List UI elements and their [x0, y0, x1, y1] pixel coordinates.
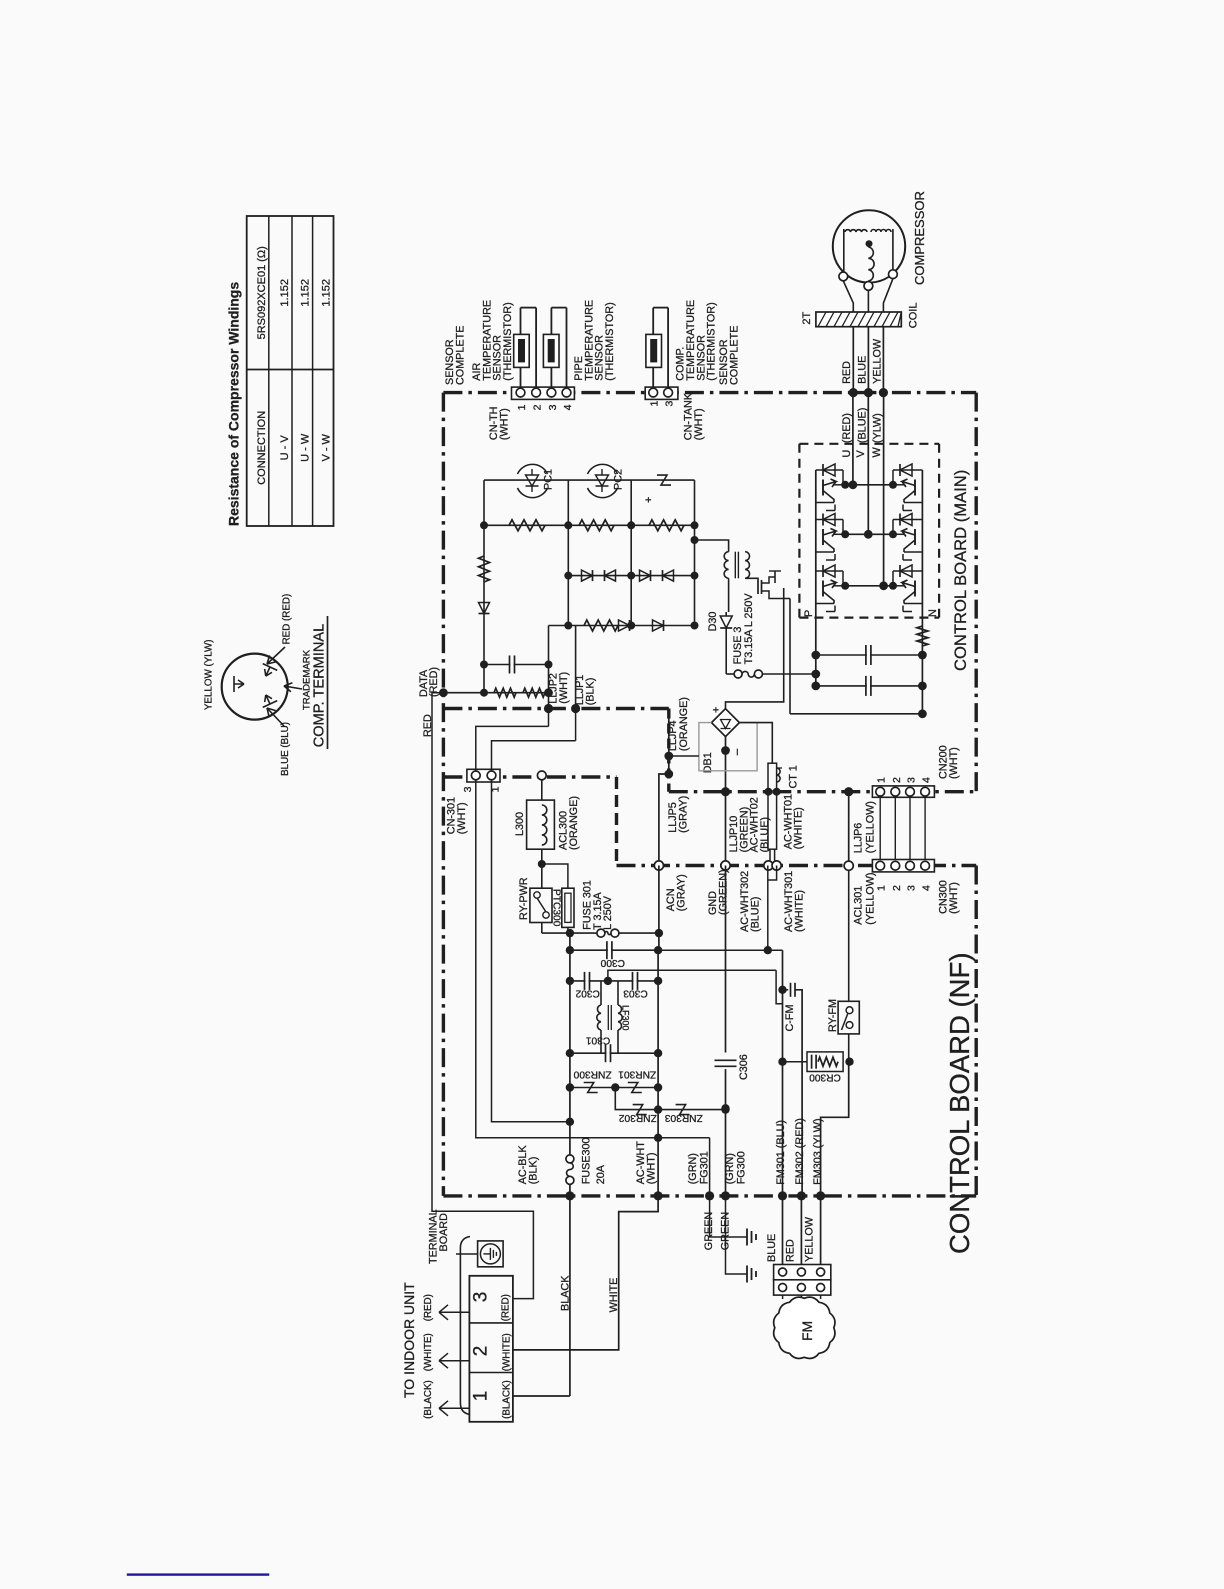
svg-text:(BLK): (BLK) — [585, 678, 597, 706]
svg-text:+: + — [643, 497, 655, 503]
svg-text:CT 1: CT 1 — [787, 765, 799, 788]
svg-text:(WHT): (WHT) — [558, 672, 570, 704]
svg-text:4: 4 — [921, 777, 933, 783]
svg-text:U - V: U - V — [279, 435, 291, 461]
svg-text:C300: C300 — [600, 957, 625, 968]
svg-text:U: U — [841, 450, 853, 458]
svg-text:3: 3 — [664, 401, 676, 407]
svg-text:FG301: FG301 — [699, 1151, 711, 1184]
svg-text:WHITE: WHITE — [608, 1278, 620, 1313]
svg-text:1: 1 — [516, 404, 528, 410]
svg-text:P: P — [803, 610, 815, 617]
svg-text:(WHT): (WHT) — [499, 408, 511, 440]
svg-text:(WHITE): (WHITE) — [502, 1333, 513, 1371]
svg-text:1.152: 1.152 — [300, 279, 312, 307]
svg-text:(GREEN): (GREEN) — [717, 869, 729, 915]
svg-text:N: N — [927, 609, 939, 617]
svg-text:(THERMISTOR): (THERMISTOR) — [502, 302, 514, 380]
svg-text:FM301 (BLU): FM301 (BLU) — [775, 1120, 787, 1185]
svg-text:BOARD: BOARD — [438, 1213, 450, 1252]
svg-text:ZNR301: ZNR301 — [618, 1069, 656, 1080]
svg-text:BLUE: BLUE — [856, 356, 868, 384]
svg-text:COMP. TERMINAL: COMP. TERMINAL — [312, 624, 328, 748]
svg-text:W: W — [871, 447, 883, 458]
svg-text:YELLOW: YELLOW — [872, 338, 884, 384]
svg-text:FUSE300: FUSE300 — [581, 1137, 593, 1184]
svg-text:(BLACK): (BLACK) — [423, 1380, 434, 1419]
svg-text:2: 2 — [891, 885, 903, 891]
svg-text:CONTROL BOARD (MAIN): CONTROL BOARD (MAIN) — [951, 470, 970, 671]
svg-text:T3.15A L 250V: T3.15A L 250V — [743, 593, 755, 665]
svg-text:3: 3 — [906, 885, 918, 891]
svg-text:2T: 2T — [801, 311, 813, 324]
svg-text:(THERMISTOR): (THERMISTOR) — [604, 302, 616, 380]
svg-text:ZNR302: ZNR302 — [619, 1112, 657, 1123]
svg-text:1.152: 1.152 — [320, 279, 332, 307]
svg-text:(GRAY): (GRAY) — [678, 796, 690, 833]
svg-text:(GRN): (GRN) — [687, 1153, 699, 1184]
svg-text:GREEN: GREEN — [703, 1212, 715, 1250]
svg-text:PTC300: PTC300 — [551, 889, 562, 927]
svg-text:FM302 (RED): FM302 (RED) — [794, 1118, 806, 1185]
svg-text:(BLUE): (BLUE) — [856, 408, 868, 443]
svg-text:(BLACK): (BLACK) — [502, 1380, 513, 1419]
svg-text:(ORANGE): (ORANGE) — [678, 697, 690, 751]
svg-text:(WHT): (WHT) — [456, 802, 468, 834]
svg-text:(BLUE): (BLUE) — [749, 897, 761, 932]
svg-text:COIL: COIL — [908, 303, 920, 329]
svg-text:RED: RED — [785, 1239, 797, 1262]
svg-text:(WHITE): (WHITE) — [793, 890, 805, 932]
svg-text:3: 3 — [547, 404, 559, 410]
svg-text:C301: C301 — [585, 1034, 610, 1045]
svg-text:1.152: 1.152 — [279, 279, 291, 307]
svg-text:4: 4 — [921, 885, 933, 891]
svg-text:RED: RED — [841, 361, 853, 384]
svg-text:C302: C302 — [575, 987, 600, 998]
svg-text:2: 2 — [471, 1346, 492, 1357]
svg-text:C-FM: C-FM — [784, 1005, 796, 1032]
svg-text:2: 2 — [532, 404, 544, 410]
svg-text:CONTROL BOARD (NF): CONTROL BOARD (NF) — [944, 953, 975, 1254]
svg-text:Resistance of Compressor Windi: Resistance of Compressor Windings — [226, 282, 242, 526]
svg-text:C303: C303 — [623, 987, 648, 998]
svg-text:CR300: CR300 — [809, 1071, 841, 1082]
svg-text:(WHT): (WHT) — [693, 408, 705, 440]
svg-text:BLACK: BLACK — [560, 1275, 572, 1311]
svg-text:1: 1 — [649, 401, 661, 407]
svg-text:(WHITE): (WHITE) — [793, 807, 805, 849]
svg-text:C306: C306 — [738, 1054, 750, 1080]
svg-text:L 250V: L 250V — [602, 895, 614, 930]
svg-text:1: 1 — [471, 1391, 492, 1402]
svg-text:(WHT): (WHT) — [948, 882, 960, 914]
svg-text:20A: 20A — [595, 1164, 607, 1184]
svg-text:5RS092XCE01 (Ω): 5RS092XCE01 (Ω) — [256, 246, 268, 339]
svg-text:(YLW): (YLW) — [872, 413, 884, 443]
svg-text:(RED): (RED) — [841, 413, 853, 443]
svg-text:(THERMISTOR): (THERMISTOR) — [706, 302, 718, 380]
svg-text:PC1: PC1 — [543, 469, 555, 490]
svg-text:COMPLETE: COMPLETE — [728, 326, 740, 385]
svg-text:LLJP6: LLJP6 — [853, 823, 865, 854]
svg-text:(ORANGE): (ORANGE) — [568, 796, 580, 850]
svg-text:RY-PWR: RY-PWR — [518, 877, 530, 920]
svg-text:3: 3 — [471, 1292, 492, 1303]
svg-text:4: 4 — [562, 404, 574, 410]
svg-text:RED (RED): RED (RED) — [282, 594, 293, 645]
svg-text:(RED): (RED) — [423, 1294, 434, 1321]
svg-text:(RED): (RED) — [501, 1294, 512, 1321]
svg-text:+: + — [711, 707, 723, 713]
svg-text:GREEN: GREEN — [720, 1212, 732, 1250]
svg-text:BLUE (BLU): BLUE (BLU) — [280, 722, 291, 776]
svg-text:V: V — [855, 450, 867, 458]
svg-text:RY-FM: RY-FM — [827, 999, 839, 1032]
svg-text:COMPLETE: COMPLETE — [454, 326, 466, 385]
svg-text:(BLK): (BLK) — [527, 1157, 539, 1185]
svg-text:V - W: V - W — [320, 433, 332, 461]
svg-text:TO INDOOR UNIT: TO INDOOR UNIT — [401, 1282, 417, 1398]
svg-text:(YELLOW): (YELLOW) — [865, 801, 877, 853]
svg-text:1: 1 — [876, 885, 888, 891]
svg-text:(BLUE): (BLUE) — [759, 817, 771, 852]
svg-text:(YELLOW): (YELLOW) — [865, 872, 877, 924]
svg-text:(GRAY): (GRAY) — [675, 874, 687, 911]
svg-text:CONNECTION: CONNECTION — [256, 411, 268, 485]
svg-text:FM303 (YLW): FM303 (YLW) — [812, 1118, 824, 1184]
svg-text:BLUE: BLUE — [766, 1234, 778, 1262]
svg-text:LF300: LF300 — [621, 1005, 631, 1031]
svg-text:D30: D30 — [707, 612, 719, 632]
svg-text:PC2: PC2 — [613, 469, 625, 490]
svg-text:U - W: U - W — [300, 433, 312, 462]
svg-text:FM: FM — [799, 1321, 815, 1341]
svg-text:(WHT): (WHT) — [645, 1153, 657, 1185]
svg-text:YELLOW: YELLOW — [803, 1216, 815, 1262]
svg-text:3: 3 — [462, 786, 474, 792]
svg-text:(WHITE): (WHITE) — [423, 1333, 434, 1371]
svg-text:ZNR300: ZNR300 — [573, 1069, 611, 1080]
svg-text:ZNR303: ZNR303 — [665, 1112, 703, 1123]
svg-text:YELLOW (YLW): YELLOW (YLW) — [204, 640, 215, 711]
svg-text:FG300: FG300 — [736, 1151, 748, 1184]
svg-text:(WHT): (WHT) — [948, 747, 960, 779]
svg-text:ACL301: ACL301 — [853, 886, 865, 925]
svg-text:COMPRESSOR: COMPRESSOR — [912, 191, 927, 285]
svg-text:2: 2 — [891, 777, 903, 783]
svg-text:3: 3 — [906, 777, 918, 783]
svg-text:L300: L300 — [514, 812, 526, 836]
svg-text:1: 1 — [876, 777, 888, 783]
